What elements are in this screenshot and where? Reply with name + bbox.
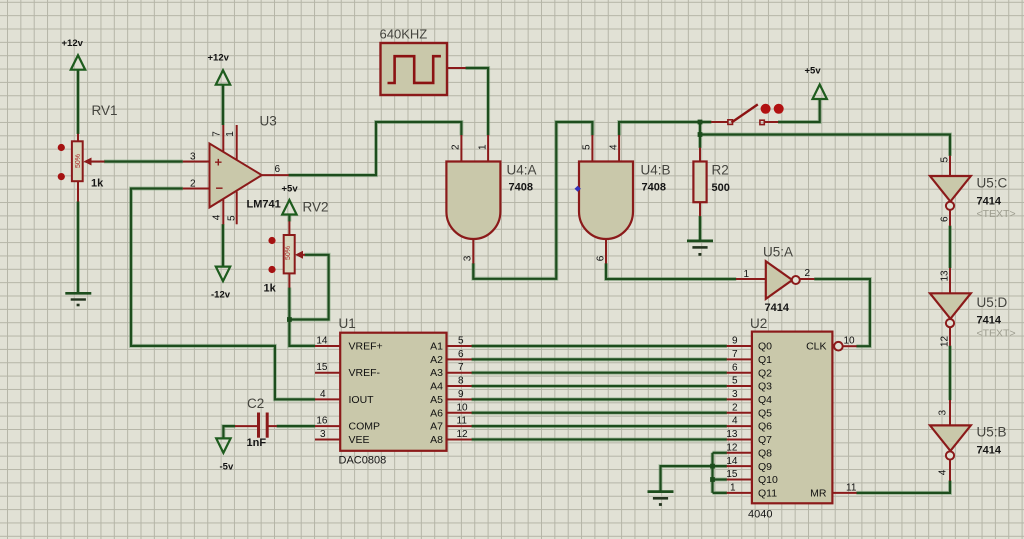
switch actuator dot 2 — [774, 104, 784, 114]
svg-text:IOUT: IOUT — [349, 394, 375, 406]
svg-text:5: 5 — [940, 157, 951, 163]
pin U1 A7 stub — [447, 425, 472, 427]
pin U5:C input stub — [949, 156, 951, 176]
pin RV1 top lead — [77, 134, 79, 142]
svg-text:4: 4 — [732, 416, 738, 427]
svg-text:Q9: Q9 — [758, 461, 772, 473]
svg-text:-12v: -12v — [211, 290, 231, 301]
pin U4:A output stub — [472, 239, 474, 264]
pin U2 Q2 stub — [727, 372, 752, 374]
pin U1 VEE stub — [315, 438, 340, 440]
blue marker near U4:B — [575, 186, 581, 192]
op-amp U3 body — [210, 144, 262, 208]
pin U1 VREF+ stub — [315, 345, 340, 347]
svg-text:+12v: +12v — [62, 38, 84, 49]
pin U2 Q4 stub — [727, 398, 752, 400]
pin RV2 top lead — [288, 221, 290, 235]
pin U5:D input stub — [949, 268, 951, 293]
svg-text:Q10: Q10 — [758, 474, 778, 486]
pin U3 pin7 — [222, 125, 224, 152]
pin RV1 bottom lead — [77, 181, 79, 202]
svg-text:Q0: Q0 — [758, 341, 772, 353]
svg-text:3: 3 — [190, 152, 196, 163]
640KHZ pulse generator box — [381, 43, 448, 95]
svg-text:7414: 7414 — [765, 302, 790, 314]
svg-text:3: 3 — [938, 410, 949, 416]
svg-text:U5:B: U5:B — [977, 425, 1007, 440]
svg-text:8: 8 — [458, 376, 464, 387]
pin U1 A3 stub — [447, 372, 472, 374]
pin R2 bottom lead — [699, 202, 701, 216]
IC U2 4040 body — [752, 332, 833, 504]
svg-text:2: 2 — [805, 268, 811, 279]
pin U3 pin3 stub — [183, 161, 210, 163]
svg-text:Q11: Q11 — [758, 487, 777, 499]
pin switch left lead — [711, 121, 728, 123]
RV1 wiper arrow — [84, 158, 105, 166]
pin U5:B output stub — [949, 460, 951, 481]
svg-text:7: 7 — [212, 131, 223, 137]
svg-text:<TEXT>: <TEXT> — [977, 208, 1016, 220]
svg-text:Q3: Q3 — [758, 381, 772, 393]
pin U5:D output stub — [949, 327, 951, 346]
svg-text:U5:D: U5:D — [977, 295, 1008, 310]
svg-text:2: 2 — [190, 179, 196, 190]
pin U3 pin5 — [236, 192, 238, 225]
power -12v arrow (U3 pin4) — [216, 267, 230, 282]
svg-text:6: 6 — [275, 164, 281, 175]
svg-text:2: 2 — [451, 144, 462, 150]
pin U4:B output stub — [605, 239, 607, 264]
svg-text:12: 12 — [939, 335, 950, 347]
svg-text:VEE: VEE — [349, 434, 370, 446]
RV1 terminal dot upper — [58, 144, 65, 151]
svg-text:R2: R2 — [712, 163, 729, 178]
svg-text:Q6: Q6 — [758, 421, 772, 433]
svg-text:6: 6 — [458, 349, 464, 360]
pin U2 Q7 stub — [727, 438, 752, 440]
svg-text:COMP: COMP — [349, 421, 381, 433]
pin U2 MR stub — [832, 492, 856, 494]
svg-text:−: − — [216, 181, 224, 196]
svg-text:U4:B: U4:B — [641, 163, 671, 178]
svg-text:A6: A6 — [430, 407, 443, 419]
svg-text:6: 6 — [732, 362, 738, 373]
junction node at switch upper — [698, 120, 703, 125]
switch actuator dot 1 — [761, 104, 771, 114]
svg-text:1: 1 — [743, 269, 749, 280]
pin C2 left lead — [235, 425, 259, 427]
svg-text:+5v: +5v — [805, 66, 822, 77]
svg-text:6: 6 — [939, 216, 950, 222]
pin U2 Q11 stub — [727, 492, 752, 494]
U2 CLK bubble — [834, 342, 843, 351]
svg-text:14: 14 — [316, 336, 328, 347]
svg-text:+12v: +12v — [208, 53, 230, 64]
svg-text:640KHZ: 640KHZ — [380, 27, 428, 42]
potentiometer RV1 body — [72, 141, 83, 181]
svg-text:Q2: Q2 — [758, 367, 772, 379]
pin U1 A8 stub — [447, 438, 472, 440]
svg-text:1k: 1k — [91, 178, 104, 190]
svg-text:6: 6 — [596, 255, 607, 261]
svg-text:U1: U1 — [339, 316, 356, 331]
svg-text:3: 3 — [463, 255, 474, 261]
svg-text:1k: 1k — [264, 283, 277, 295]
wire net halo layer — [78, 68, 950, 493]
RV2 terminal dot upper — [268, 237, 275, 244]
svg-text:7: 7 — [732, 349, 738, 360]
svg-text:14: 14 — [726, 456, 738, 467]
svg-text:+5v: +5v — [282, 184, 299, 195]
svg-text:12: 12 — [726, 442, 738, 453]
pin U2 CLK stub — [843, 345, 856, 347]
svg-text:5: 5 — [582, 144, 593, 150]
pin RV2 bottom lead — [288, 273, 290, 288]
pin U2 Q1 stub — [727, 358, 752, 360]
pin U1 VREF- stub — [315, 372, 340, 374]
svg-text:16: 16 — [316, 416, 328, 427]
pin U1 IOUT stub — [315, 398, 340, 400]
svg-text:A4: A4 — [430, 381, 443, 393]
svg-text:Q1: Q1 — [758, 354, 772, 366]
svg-text:7408: 7408 — [509, 182, 533, 194]
svg-text:+: + — [215, 155, 223, 170]
svg-text:7408: 7408 — [642, 182, 666, 194]
svg-text:13: 13 — [726, 429, 738, 440]
junction node at switch lower — [698, 132, 703, 137]
switch SW contact right — [760, 120, 764, 124]
pin U5:B input stub — [949, 400, 951, 425]
svg-text:500: 500 — [712, 182, 730, 194]
svg-text:12: 12 — [457, 429, 469, 440]
svg-text:13: 13 — [939, 270, 950, 282]
svg-text:50%: 50% — [285, 246, 292, 260]
pin U4:B pin5 stub — [591, 135, 593, 162]
svg-text:1nF: 1nF — [247, 437, 267, 449]
AND gate U4:B body — [579, 162, 633, 239]
svg-text:VREF-: VREF- — [349, 367, 381, 379]
svg-text:U3: U3 — [260, 114, 277, 129]
pin U2 Q10 stub — [727, 479, 752, 481]
svg-text:7414: 7414 — [977, 315, 1002, 327]
svg-text:MR: MR — [810, 487, 827, 499]
switch SW lever — [732, 104, 758, 122]
svg-text:7: 7 — [458, 362, 464, 373]
svg-text:2: 2 — [732, 402, 738, 413]
svg-text:5: 5 — [458, 336, 464, 347]
svg-text:10: 10 — [844, 336, 856, 347]
pin U1 COMP stub — [315, 425, 340, 427]
AND gate U4:A body — [446, 162, 500, 239]
svg-text:4040: 4040 — [748, 509, 772, 521]
svg-text:CLK: CLK — [806, 341, 826, 353]
pin U2 Q8 stub — [727, 452, 752, 454]
svg-text:3: 3 — [320, 429, 326, 440]
power +12v arrow (RV1) — [71, 55, 85, 69]
svg-text:U4:A: U4:A — [507, 163, 537, 178]
svg-text:Q4: Q4 — [758, 394, 772, 406]
pin U2 Q9 stub — [727, 465, 752, 467]
svg-text:5: 5 — [732, 376, 738, 387]
wire net core layer — [78, 68, 950, 493]
svg-text:A3: A3 — [430, 367, 443, 379]
inverter U5:D body — [930, 293, 971, 327]
pin U4:B pin4 stub — [618, 135, 620, 162]
RV2 terminal dot lower — [268, 266, 275, 273]
switch SW contact left — [728, 120, 733, 125]
svg-text:Q8: Q8 — [758, 447, 772, 459]
svg-text:RV2: RV2 — [303, 200, 329, 215]
capacitor C2 plates — [259, 413, 268, 438]
pin U4:A pin1 stub — [487, 135, 489, 162]
svg-text:Q7: Q7 — [758, 434, 772, 446]
svg-text:A1: A1 — [430, 341, 443, 353]
pin U4:A pin2 stub — [460, 135, 462, 162]
pin U5:A input stub — [736, 278, 766, 280]
power +5v arrow (switch) — [813, 85, 827, 100]
svg-text:A7: A7 — [430, 421, 443, 433]
svg-text:4: 4 — [320, 389, 326, 400]
RV2 wiper arrow — [295, 251, 305, 259]
junction node RV2 bottom — [287, 317, 292, 322]
svg-text:10: 10 — [457, 402, 469, 413]
svg-text:Q5: Q5 — [758, 407, 772, 419]
pin 640KHZ generator stub — [447, 67, 466, 69]
svg-text:15: 15 — [726, 469, 738, 480]
svg-text:1: 1 — [730, 482, 736, 493]
power -5v arrow (C2) — [216, 438, 230, 453]
svg-text:<TEXT>: <TEXT> — [977, 328, 1016, 340]
svg-text:LM741: LM741 — [247, 199, 281, 211]
svg-text:U5:A: U5:A — [763, 245, 793, 260]
IC U1 DAC0808 body — [340, 333, 446, 451]
pin U3 pin4 — [222, 200, 224, 225]
pin U1 A4 stub — [447, 385, 472, 387]
pin U1 A2 stub — [447, 358, 472, 360]
pin U2 Q3 stub — [727, 385, 752, 387]
svg-text:1: 1 — [225, 131, 236, 137]
svg-text:5: 5 — [227, 215, 238, 221]
RV1 terminal dot lower — [58, 173, 65, 180]
junction node Q9 bus — [710, 464, 715, 469]
svg-text:11: 11 — [457, 416, 468, 427]
resistor R2 body — [693, 162, 706, 203]
svg-text:4: 4 — [212, 214, 223, 220]
svg-text:7414: 7414 — [977, 196, 1002, 208]
pin U5:A output stub — [799, 278, 814, 280]
svg-text:C2: C2 — [247, 396, 264, 411]
pin C2 right lead — [267, 425, 277, 427]
potentiometer RV2 body — [284, 235, 295, 273]
pin U3 pin1 — [236, 125, 238, 160]
svg-text:9: 9 — [732, 336, 738, 347]
pin U2 Q5 stub — [727, 412, 752, 414]
svg-text:A2: A2 — [430, 354, 443, 366]
pin U3 pin2 stub — [183, 188, 210, 190]
svg-text:15: 15 — [316, 362, 328, 373]
ground (R2) — [687, 241, 713, 255]
pin U1 A1 stub — [447, 345, 472, 347]
inverter U5:C body — [930, 176, 971, 210]
pin U1 A5 stub — [447, 398, 472, 400]
power +12v arrow (U3) — [216, 70, 230, 85]
svg-text:1: 1 — [477, 144, 488, 150]
svg-text:DAC0808: DAC0808 — [339, 455, 387, 467]
svg-text:3: 3 — [732, 389, 738, 400]
svg-text:9: 9 — [458, 389, 464, 400]
ground (U2 Q9 bus) — [648, 492, 674, 505]
ground (RV1) — [65, 293, 91, 305]
svg-text:-5v: -5v — [220, 462, 234, 473]
svg-text:4: 4 — [608, 144, 619, 150]
inverter U5:B body — [930, 425, 971, 459]
svg-text:U5:C: U5:C — [977, 176, 1008, 191]
power +5v arrow (RV2) — [282, 200, 296, 215]
svg-text:11: 11 — [846, 482, 857, 493]
svg-text:A5: A5 — [430, 394, 443, 406]
svg-text:U2: U2 — [750, 316, 767, 331]
svg-text:VREF+: VREF+ — [349, 341, 383, 353]
svg-text:4: 4 — [938, 469, 949, 475]
svg-text:RV1: RV1 — [92, 103, 118, 118]
junction node Q10 bus — [710, 477, 715, 482]
svg-text:A8: A8 — [430, 434, 443, 446]
svg-text:50%: 50% — [75, 154, 82, 168]
pin U5:C output stub — [949, 210, 951, 226]
pin U3 output stub — [262, 174, 289, 176]
svg-text:7414: 7414 — [977, 445, 1002, 457]
pin U2 Q6 stub — [727, 425, 752, 427]
pin R2 top lead — [699, 148, 701, 162]
pin U1 A6 stub — [447, 412, 472, 414]
pin switch right lead — [764, 121, 778, 123]
pin U2 Q0 stub — [727, 345, 752, 347]
inverter U5:A body — [766, 261, 800, 299]
